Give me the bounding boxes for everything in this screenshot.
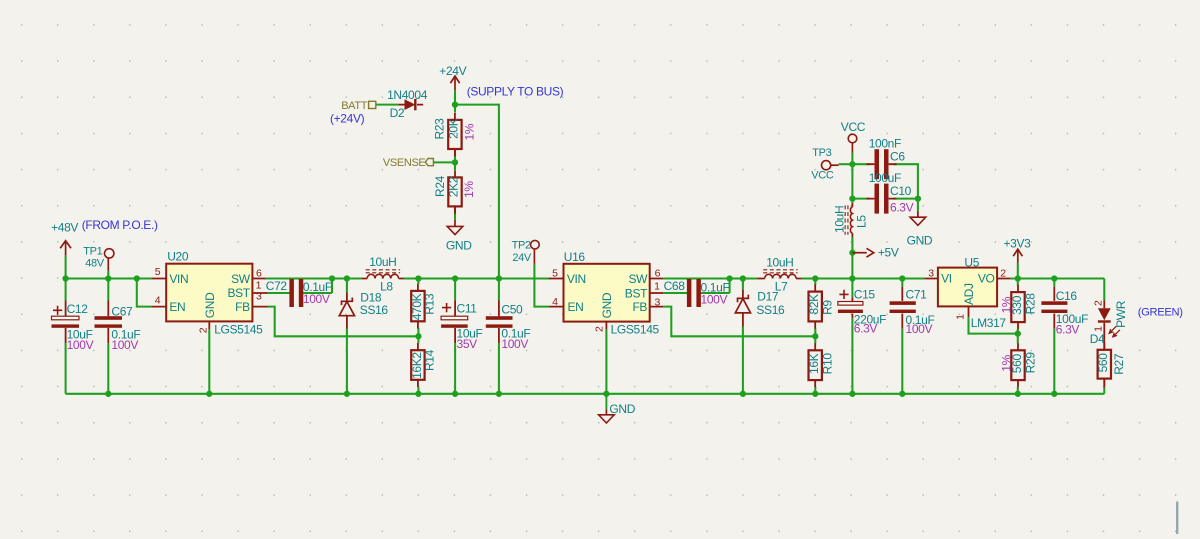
junction (137,278) — [134, 275, 140, 281]
svg-text:L8: L8 — [380, 279, 393, 293]
capacitor C11 10uF 35V (polarized) — [454, 301, 456, 344]
wire C50 column — [498, 279, 500, 394]
svg-text:100V: 100V — [906, 322, 933, 336]
resistor R10 16K — [814, 343, 816, 387]
junction (347,278) — [344, 275, 350, 281]
wire R28 column — [1017, 279, 1019, 334]
svg-text:D2: D2 — [390, 106, 405, 120]
svg-text:C72: C72 — [266, 279, 288, 293]
svg-text:R10: R10 — [821, 353, 835, 375]
svg-text:C12: C12 — [67, 302, 89, 316]
junction (815,336) — [812, 333, 818, 339]
svg-text:C10: C10 — [890, 184, 912, 198]
junction (455,105) — [452, 101, 458, 107]
ground symbol GND (below C10) — [917, 211, 919, 217]
svg-text:24V: 24V — [512, 252, 532, 264]
resistor R9 82K — [814, 284, 816, 328]
svg-text:LM317: LM317 — [971, 316, 1007, 330]
wire VSENSE to divider tap — [434, 161, 456, 163]
resistor R13 470K — [417, 284, 419, 329]
svg-text:+24V: +24V — [439, 64, 466, 78]
svg-text:VSENSE: VSENSE — [383, 157, 426, 169]
svg-text:VO: VO — [978, 272, 995, 286]
svg-text:2K2: 2K2 — [447, 176, 461, 197]
wire U20.EN branch — [137, 279, 151, 307]
junction (347,394) — [344, 391, 350, 397]
capacitor C10 100uF 6.3V — [867, 198, 897, 200]
svg-text:R13: R13 — [422, 293, 436, 315]
wire R14 column — [417, 336, 419, 394]
wire U16.SW to L7 — [663, 277, 757, 279]
wire R29 column — [1017, 334, 1019, 394]
svg-text:100V: 100V — [303, 292, 330, 306]
wire TP3 to VCC node — [839, 163, 853, 165]
wire C15 column — [851, 279, 853, 394]
junction (852,278) — [849, 275, 855, 281]
svg-text:100V: 100V — [67, 338, 94, 352]
wire R10 column — [814, 336, 816, 394]
svg-text:ADJ: ADJ — [962, 283, 976, 305]
svg-text:R9: R9 — [821, 300, 835, 315]
wire U16.FB to R9/R10 divider — [663, 307, 815, 337]
regulator U20 LGS5145 — [151, 264, 267, 330]
wire D18 column — [346, 279, 348, 394]
svg-text:BATT: BATT — [341, 100, 368, 112]
svg-text:1%: 1% — [462, 181, 476, 198]
svg-text:(+24V): (+24V) — [330, 112, 365, 126]
svg-text:6.3V: 6.3V — [1056, 323, 1080, 337]
power symbol +24V — [454, 76, 456, 90]
svg-text:VIN: VIN — [169, 272, 188, 286]
svg-text:48V: 48V — [85, 258, 105, 270]
junction (1054,278) — [1051, 275, 1057, 281]
svg-text:R29: R29 — [1024, 352, 1038, 374]
svg-text:20K: 20K — [447, 118, 461, 139]
junction (852,199) — [849, 195, 855, 201]
svg-text:TP3: TP3 — [812, 147, 831, 159]
junction (455,278) — [452, 275, 458, 281]
junction (815,394) — [812, 391, 818, 397]
svg-text:1N4004: 1N4004 — [387, 88, 428, 102]
svg-text:U20: U20 — [167, 250, 189, 264]
test point TP2 — [531, 240, 540, 249]
svg-text:LGS5145: LGS5145 — [611, 322, 660, 336]
junction (1018,394) — [1015, 391, 1021, 397]
wire U20.SW to L8 — [266, 277, 362, 279]
resistor R29 560 1% — [1017, 343, 1019, 387]
wire BATT to D2 — [376, 104, 398, 106]
wire C72 to BST node — [268, 279, 333, 294]
svg-text:VI: VI — [941, 272, 952, 286]
svg-text:TP2: TP2 — [512, 239, 531, 251]
svg-text:C6: C6 — [890, 149, 905, 163]
wire BATT/D2 node down to 24V rail — [455, 105, 499, 279]
scrollbar fragment — [1176, 502, 1178, 535]
resistor R28 330 1% — [1017, 285, 1019, 329]
svg-text:5: 5 — [155, 266, 161, 278]
svg-text:2: 2 — [1093, 300, 1105, 306]
wire C10 right to GND — [893, 199, 918, 211]
power symbol +48V — [65, 241, 67, 256]
svg-text:5: 5 — [552, 268, 558, 280]
svg-text:EN: EN — [169, 300, 185, 314]
junction (1018,278) — [1015, 275, 1021, 281]
junction (852,394) — [849, 391, 855, 397]
capacitor C6 100nF — [867, 163, 897, 165]
wire C11 column — [454, 279, 456, 394]
svg-text:6: 6 — [655, 268, 661, 280]
svg-text:EN: EN — [568, 300, 584, 314]
power symbol +3V3 — [1017, 249, 1019, 263]
wire C68 to BST node — [663, 279, 730, 294]
capacitor C67 0.1uF 100V — [107, 301, 109, 344]
svg-text:100V: 100V — [501, 337, 528, 351]
power symbol VCC — [848, 134, 857, 143]
wire C67 column — [107, 279, 109, 394]
svg-text:U5: U5 — [964, 256, 979, 270]
svg-text:10uH: 10uH — [833, 206, 847, 233]
junction (209,394) — [206, 391, 212, 397]
svg-text:SS16: SS16 — [756, 303, 785, 317]
wire +3V3 stub — [1017, 263, 1019, 279]
svg-text:6.3V: 6.3V — [854, 322, 878, 336]
svg-text:R27: R27 — [1112, 353, 1126, 375]
svg-text:1: 1 — [954, 314, 966, 320]
svg-text:D4: D4 — [1090, 332, 1105, 346]
inductor L7 10uH — [758, 278, 802, 280]
svg-text:4: 4 — [552, 296, 558, 308]
wire R13 column — [417, 279, 419, 337]
svg-text:FB: FB — [632, 300, 647, 314]
ground symbol GND (main rail, below U16) — [605, 394, 607, 409]
svg-text:1%: 1% — [1000, 354, 1014, 371]
wire U20 GND pin to ground rail — [208, 329, 210, 394]
inductor L8 10uH — [362, 278, 405, 280]
power symbol +5V — [852, 252, 866, 254]
junction (108,278) — [105, 275, 111, 281]
resistor R14 16K2 — [417, 343, 419, 387]
junction (815,278) — [812, 275, 818, 281]
wire VCC node to C10 node and L5 — [851, 164, 853, 278]
svg-text:6.3V: 6.3V — [890, 201, 914, 215]
regulator U5 LM317 — [925, 268, 1011, 318]
junction (1054,394) — [1051, 391, 1057, 397]
svg-text:16K: 16K — [807, 353, 821, 374]
junction (918,199) — [915, 195, 921, 201]
svg-text:GND: GND — [203, 292, 217, 318]
svg-text:VCC: VCC — [841, 120, 866, 134]
svg-text:SS16: SS16 — [360, 303, 389, 317]
svg-text:L7: L7 — [775, 279, 788, 293]
diode D2 1N4004 — [398, 104, 423, 106]
junction (852,164) — [849, 161, 855, 167]
svg-text:U16: U16 — [564, 250, 586, 264]
junction (743,394) — [740, 391, 746, 397]
wire C6 right down to C10 right — [893, 164, 918, 198]
svg-text:FB: FB — [235, 300, 250, 314]
svg-text:R24: R24 — [433, 175, 447, 197]
test point TP1 — [105, 249, 114, 258]
svg-text:VCC: VCC — [811, 170, 834, 182]
junction (743,278) — [740, 275, 746, 281]
svg-text:10uH: 10uH — [369, 255, 396, 269]
svg-text:6: 6 — [256, 268, 262, 280]
svg-text:10uH: 10uH — [766, 256, 793, 270]
capacitor C16 100uF 6.3V — [1053, 287, 1055, 329]
schottky diode D18 SS16 — [346, 293, 348, 329]
svg-text:1: 1 — [1093, 326, 1105, 332]
junction (108,394) — [105, 391, 111, 397]
junction (455,162) — [452, 159, 458, 165]
junction (730,278) — [726, 275, 732, 281]
svg-text:C11: C11 — [457, 302, 478, 316]
svg-text:2: 2 — [197, 327, 209, 333]
ground symbol GND (below R24) — [454, 220, 456, 227]
svg-text:100nF: 100nF — [869, 136, 901, 150]
junction (499,394) — [496, 391, 502, 397]
junction (455,394) — [452, 391, 458, 397]
regulator U16 LGS5145 — [549, 264, 663, 329]
resistor R24 2K2 1% — [454, 170, 456, 213]
svg-text:BST: BST — [228, 286, 251, 300]
junction (1018,334) — [1015, 330, 1021, 336]
junction (418,278) — [415, 275, 421, 281]
wire ground rail — [66, 393, 1105, 395]
svg-text:L5: L5 — [855, 215, 869, 228]
junction (418,394) — [415, 391, 421, 397]
wire +24V stub — [454, 90, 456, 104]
junction (606,394) — [603, 391, 609, 397]
svg-text:R28: R28 — [1024, 293, 1038, 315]
capacitor C68 0.1uF 100V — [687, 279, 692, 307]
svg-text:100V: 100V — [111, 338, 138, 352]
capacitor C71 0.1uF 100V — [901, 287, 903, 329]
capacitor C50 0.1uF 100V — [498, 301, 500, 344]
wire L7 to U5.VI (5V rail) — [802, 277, 925, 279]
svg-text:1%: 1% — [462, 123, 476, 140]
wire R9 column — [814, 279, 816, 337]
junction (902,394) — [899, 391, 905, 397]
junction (499,278) — [496, 275, 502, 281]
svg-text:C71: C71 — [906, 288, 928, 302]
test point TP3 — [822, 161, 831, 170]
wire C6 left — [852, 163, 869, 165]
wire C10 left — [852, 198, 869, 200]
svg-text:C16: C16 — [1056, 289, 1078, 303]
svg-text:1: 1 — [256, 279, 262, 291]
svg-text:GND: GND — [609, 402, 635, 416]
junction (332,278) — [329, 275, 335, 281]
wire U20.FB to R13/R14 divider — [268, 307, 419, 337]
svg-text:100uF: 100uF — [869, 171, 901, 185]
svg-text:(SUPPLY TO BUS): (SUPPLY TO BUS) — [467, 85, 564, 99]
svg-text:SW: SW — [628, 272, 648, 286]
svg-text:3: 3 — [256, 291, 262, 303]
svg-text:C68: C68 — [664, 279, 686, 293]
svg-text:C15: C15 — [854, 287, 876, 301]
svg-text:SW: SW — [231, 272, 251, 286]
svg-text:R23: R23 — [433, 118, 447, 140]
wire LED D4 / R27 column — [1103, 279, 1105, 394]
wire R24 column to GND — [454, 162, 456, 220]
LED D4 PWR — [1103, 300, 1105, 387]
svg-text:LGS5145: LGS5145 — [214, 322, 263, 336]
svg-text:1%: 1% — [1000, 296, 1014, 313]
capacitor C15 220uF 6.3V (polarized) — [851, 297, 853, 318]
svg-text:(GREEN): (GREEN) — [1138, 306, 1183, 318]
svg-text:C50: C50 — [501, 303, 523, 317]
wire +48V input rail to U20.VIN — [66, 277, 152, 279]
svg-text:1: 1 — [654, 281, 660, 293]
wire U5.VO output 3V3 rail — [1010, 277, 1104, 279]
svg-text:+5V: +5V — [878, 246, 899, 260]
wire TP2 to U16.EN — [534, 264, 548, 307]
svg-text:82K: 82K — [807, 294, 821, 315]
wire +48V power stub — [65, 256, 67, 279]
svg-text:560: 560 — [1096, 353, 1110, 373]
wire R23 column — [454, 105, 456, 163]
wire TP1 stub — [107, 271, 109, 279]
svg-text:2: 2 — [594, 326, 606, 332]
svg-text:C67: C67 — [111, 305, 133, 319]
svg-text:GND: GND — [600, 292, 614, 318]
svg-text:3: 3 — [928, 267, 934, 279]
wire D17 column — [742, 279, 744, 394]
resistor R23 20K 1% — [454, 113, 456, 157]
schottky diode D17 SS16 — [742, 290, 744, 327]
svg-text:GND: GND — [907, 234, 933, 248]
capacitor C12 10uF 100V (polarized) — [65, 301, 67, 344]
svg-text:BST: BST — [625, 286, 648, 300]
svg-text:(FROM P.O.E.): (FROM P.O.E.) — [82, 218, 158, 232]
junction (66,278) — [62, 275, 68, 281]
svg-text:2: 2 — [1000, 267, 1006, 279]
svg-text:4: 4 — [155, 294, 161, 306]
wire C71 column — [901, 279, 903, 394]
svg-text:VIN: VIN — [567, 272, 586, 286]
wire U16 GND pin to ground rail — [605, 329, 607, 394]
svg-text:GND: GND — [446, 238, 472, 252]
junction (852,253) — [849, 250, 855, 256]
svg-text:3: 3 — [655, 297, 661, 309]
wire C16 column — [1053, 279, 1055, 394]
wire U5.ADJ to R28/R29 divider — [969, 317, 1018, 333]
svg-text:R14: R14 — [422, 349, 436, 371]
wire C12 column — [65, 279, 67, 394]
wire VCC symbol down to TP3 node — [851, 153, 853, 165]
capacitor C72 0.1uF 100V — [289, 279, 294, 307]
inductor L5 10uH — [851, 203, 853, 237]
svg-text:100V: 100V — [701, 293, 728, 307]
resistor R27 560 — [1103, 343, 1105, 386]
junction (418,336) — [415, 333, 421, 339]
junction (902,278) — [899, 275, 905, 281]
wire L8 to U16.VIN (24V rail) — [404, 277, 550, 279]
svg-text:35V: 35V — [457, 337, 478, 351]
svg-text:+3V3: +3V3 — [1004, 237, 1032, 251]
svg-text:PWR: PWR — [1114, 300, 1128, 328]
svg-text:+48V: +48V — [51, 221, 78, 235]
svg-text:TP1: TP1 — [83, 246, 102, 258]
